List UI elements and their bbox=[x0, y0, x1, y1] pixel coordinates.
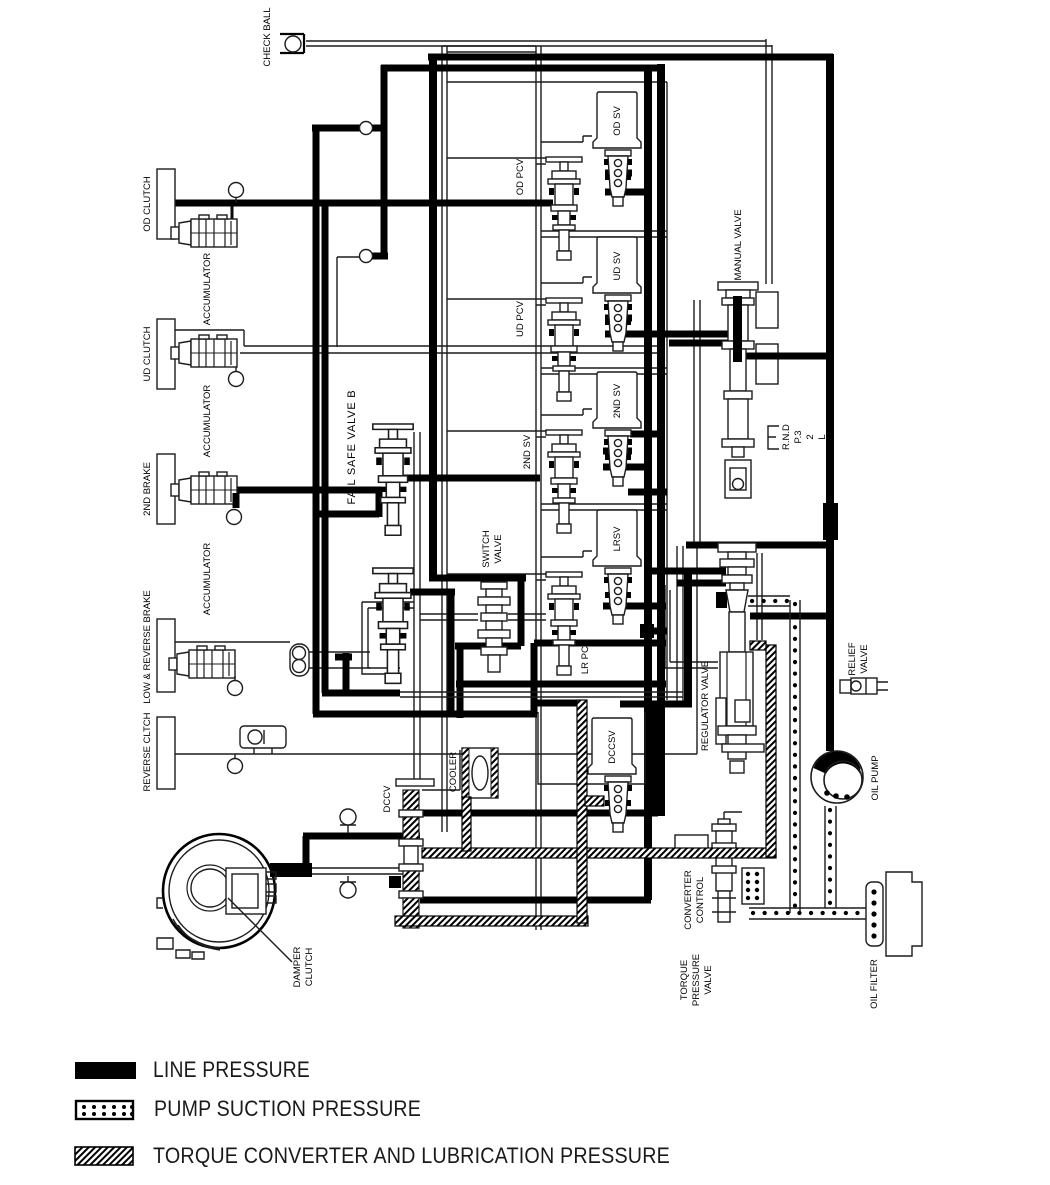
lube check ball bbox=[340, 876, 356, 898]
wire converter to dccv H836 bbox=[303, 833, 420, 840]
wire valve body left wall pair bbox=[442, 46, 447, 832]
svg-text:ACCUMULATOR: ACCUMULATOR bbox=[202, 385, 213, 458]
wire V534 bbox=[531, 643, 538, 714]
wire ud pcv connect stub bbox=[447, 299, 546, 305]
DCCV valve column bbox=[396, 779, 434, 928]
manual valve spool black stem bbox=[733, 296, 742, 362]
2ND SV solenoid body bbox=[604, 430, 632, 486]
wire manual valve feed H343 bbox=[669, 340, 728, 347]
wire switch valve thin links bbox=[420, 614, 546, 620]
svg-text:LINE PRESSURE: LINE PRESSURE bbox=[153, 1057, 310, 1082]
wire check ball line bbox=[306, 41, 772, 46]
wire lr pcv cell step bbox=[541, 551, 592, 557]
UD SV solenoid body bbox=[604, 295, 632, 351]
wire od solenoid stub 2 bbox=[605, 189, 649, 196]
wire cell divider 2 bbox=[541, 368, 667, 374]
converter control valve bbox=[712, 812, 742, 922]
UD accumulator bbox=[171, 335, 237, 367]
svg-text:OD PCV: OD PCV bbox=[515, 158, 526, 195]
wire V379 short link bbox=[376, 487, 383, 517]
wire V661 long middle vertical bbox=[657, 64, 665, 816]
suction dotted horizontal to regulator bbox=[748, 596, 790, 606]
svg-text:REGULATOR VALVE: REGULATOR VALVE bbox=[700, 661, 711, 751]
wire lr pcv connect stub bbox=[447, 574, 546, 580]
wire junction2 thin branch bbox=[337, 257, 362, 347]
regulator valve stack bbox=[716, 543, 764, 773]
svg-text:2ND SV: 2ND SV bbox=[612, 383, 623, 418]
OD clutch plate bbox=[157, 169, 175, 239]
svg-text:VALVE: VALVE bbox=[859, 644, 870, 673]
wire H583 regulator feed lower bbox=[677, 580, 726, 587]
svg-text:2: 2 bbox=[805, 434, 816, 439]
wire H703 link bbox=[536, 700, 578, 707]
wire 2nd pcv connect stub bbox=[447, 431, 546, 437]
wire manual valve feed H334 bbox=[605, 331, 745, 338]
wire V451 bbox=[448, 589, 455, 714]
wire H545 manual valve bottom line bbox=[686, 542, 831, 549]
wire H128 junction branch bbox=[312, 125, 386, 132]
svg-text:L: L bbox=[817, 434, 828, 439]
wire 2nd brake line H490 bbox=[236, 487, 382, 494]
wire H592 fail-safe link bbox=[410, 589, 455, 596]
wire V385 from H68 to junction ball 2 bbox=[381, 65, 388, 258]
svg-text:R.N.D: R.N.D bbox=[781, 424, 792, 450]
wire solenoid cell top border bbox=[447, 81, 667, 83]
UD check ball bbox=[229, 367, 244, 387]
converter control suction box bbox=[742, 868, 764, 904]
oil pump bbox=[811, 751, 863, 803]
wire H256 stub at junction ball 2 bbox=[360, 253, 388, 260]
low reverse capsule bbox=[290, 644, 309, 676]
suction dotted horizontal to oil filter bbox=[749, 908, 866, 919]
lube hatched elbow to dccsv bbox=[585, 796, 604, 806]
wire manual valve pocket bottom bbox=[756, 344, 778, 384]
2nd brake check ball with thick stem bbox=[227, 493, 242, 525]
wire manual valve pocket top bbox=[756, 292, 778, 328]
wire low reverse brake line bbox=[175, 641, 290, 643]
UD SV solenoid box bbox=[593, 237, 641, 293]
wire 2nd solenoid stub bbox=[603, 448, 632, 455]
lube hatched band vertical mid bbox=[577, 700, 587, 923]
svg-text:VALVE: VALVE bbox=[493, 534, 504, 563]
wire V648 middle vertical bbox=[644, 68, 652, 900]
svg-text:DAMPER: DAMPER bbox=[292, 947, 303, 988]
wire reverse clutch line bbox=[175, 548, 697, 754]
wire blob left of regulator bbox=[716, 592, 727, 608]
svg-text:TORQUE CONVERTER AND LUBRICATI: TORQUE CONVERTER AND LUBRICATION PRESSUR… bbox=[153, 1143, 670, 1168]
svg-text:OD CLUTCH: OD CLUTCH bbox=[142, 176, 153, 232]
wire top frame horizontals bbox=[442, 46, 536, 52]
svg-text:UD CLUTCH: UD CLUTCH bbox=[142, 326, 153, 381]
wire 2nd solenoid stub 2 bbox=[603, 464, 649, 471]
lube hatched band vertical right bbox=[766, 645, 776, 857]
wire solenoid cell right wall bbox=[666, 82, 668, 700]
manual valve detent bbox=[725, 460, 751, 498]
wire dccv feed thin pair bbox=[414, 432, 420, 779]
check ball symbol bbox=[280, 34, 304, 53]
wire od pcv cell step bbox=[541, 136, 592, 142]
LRSV solenoid body bbox=[604, 568, 632, 624]
OD SV solenoid body bbox=[604, 150, 632, 206]
svg-text:PRESSURE: PRESSURE bbox=[691, 954, 702, 1006]
damper clutch pointer bbox=[228, 898, 292, 962]
torque converter housing bbox=[157, 834, 276, 959]
wire lubrication return line bbox=[284, 868, 420, 874]
junction ball 2 bbox=[360, 250, 373, 263]
svg-text:DCCV: DCCV bbox=[382, 785, 393, 813]
wire od solenoid stub bbox=[605, 170, 632, 177]
wire H693 bbox=[322, 690, 400, 697]
2ND PCV valve bbox=[546, 430, 582, 533]
wire torque converter elbow bbox=[303, 836, 310, 875]
svg-text:RELIEF: RELIEF bbox=[847, 642, 858, 675]
svg-text:MANUAL VALVE: MANUAL VALVE bbox=[733, 209, 744, 280]
wire V833 widened section bbox=[823, 503, 838, 540]
DCCSV solenoid box bbox=[588, 718, 636, 774]
wire blob at H631 left end bbox=[640, 624, 654, 638]
wire V460 bbox=[457, 646, 464, 718]
wire H684 switch valve lower branch bbox=[456, 681, 666, 688]
reverse check ball bbox=[228, 754, 243, 774]
svg-text:PUMP SUCTION PRESSURE: PUMP SUCTION PRESSURE bbox=[154, 1096, 421, 1121]
wire regulator right thin pair bbox=[757, 553, 762, 640]
OD PCV valve bbox=[546, 157, 582, 260]
wire od pcv connect stub bbox=[447, 158, 546, 164]
OD accumulator bbox=[171, 206, 237, 247]
OD check ball with stem bbox=[229, 183, 244, 204]
2ND SV solenoid box bbox=[593, 372, 641, 428]
legend pump suction swatch bbox=[76, 1101, 134, 1119]
wire V521 bbox=[518, 578, 525, 646]
UD PCV valve bbox=[546, 298, 582, 401]
svg-text:LRSV: LRSV bbox=[612, 526, 623, 551]
OD SV solenoid box bbox=[593, 92, 641, 148]
svg-text:FAIL SAFE VALVE B: FAIL SAFE VALVE B bbox=[346, 390, 358, 505]
svg-text:P.3: P.3 bbox=[793, 430, 804, 443]
wire right main vertical V833 bbox=[826, 54, 834, 751]
low reverse brake plate bbox=[157, 619, 175, 692]
2nd brake plate bbox=[157, 454, 175, 524]
fail safe valve B lower bbox=[373, 568, 413, 683]
wire H631 branch bbox=[640, 628, 667, 635]
wire H571 regulator feed bbox=[648, 568, 726, 575]
svg-text:CONTROL: CONTROL bbox=[695, 877, 706, 923]
oil filter bbox=[866, 872, 922, 956]
wire H714 bbox=[313, 711, 537, 718]
legend line pressure swatch bbox=[75, 1062, 136, 1079]
svg-text:CONVERTER: CONVERTER bbox=[683, 870, 694, 930]
reverse check valve capsule bbox=[240, 726, 286, 754]
wire V346 elbow bbox=[335, 653, 352, 690]
wire 2nd pcv cell step bbox=[541, 409, 592, 415]
svg-text:ACCUMULATOR: ACCUMULATOR bbox=[202, 253, 213, 326]
suction dotted vertical from oil pump bbox=[825, 806, 836, 908]
wire V325 down from OD line bbox=[322, 200, 329, 693]
svg-text:CHECK BALL: CHECK BALL bbox=[262, 7, 273, 66]
wire ud solenoid stub bbox=[605, 315, 632, 322]
wire dccsv cell frame bbox=[538, 712, 645, 784]
legend torque converter swatch bbox=[75, 1147, 133, 1165]
reverse clutch plate bbox=[157, 717, 175, 789]
junction ball 1 bbox=[360, 122, 373, 135]
wire valve body mid wall pair bbox=[536, 46, 541, 930]
svg-text:LOW & REVERSE BRAKE: LOW & REVERSE BRAKE bbox=[142, 590, 153, 704]
wire ud clutch thin line bbox=[175, 330, 660, 346]
wire lube thin pair to regulator bbox=[400, 692, 683, 697]
svg-text:SWITCH: SWITCH bbox=[481, 530, 492, 568]
DCCSV solenoid body bbox=[604, 776, 632, 832]
LRSV solenoid box bbox=[593, 510, 641, 566]
wire regulator to V833 H616 bbox=[750, 613, 828, 620]
wire manual valve to V833 H356 bbox=[744, 353, 830, 360]
svg-text:CLUTCH: CLUTCH bbox=[304, 948, 315, 987]
wire H704 elbow bbox=[620, 701, 692, 708]
wire H646 bbox=[455, 643, 521, 650]
svg-text:ACCUMULATOR: ACCUMULATOR bbox=[202, 543, 213, 616]
wire V688 vertical bbox=[684, 571, 692, 707]
wire regulator left thin corners bbox=[665, 585, 718, 668]
wire dccv line H813 bbox=[420, 810, 658, 817]
cooler bbox=[462, 748, 498, 798]
svg-text:VALVE: VALVE bbox=[703, 965, 714, 994]
wire dccv cooler link bbox=[422, 750, 460, 790]
svg-text:REVERSE CLTCH: REVERSE CLTCH bbox=[142, 712, 153, 791]
svg-text:OD SV: OD SV bbox=[612, 106, 623, 136]
svg-text:LR PCV: LR PCV bbox=[580, 639, 591, 674]
svg-text:DCCSV: DCCSV bbox=[607, 730, 618, 764]
fail safe valve B upper bbox=[373, 424, 413, 535]
lube hatched stub from regulator bbox=[750, 641, 766, 650]
wire cell divider 1 bbox=[541, 231, 667, 237]
wire manual valve lower frame bbox=[694, 300, 737, 543]
wire manual valve frame right verticals bbox=[766, 39, 772, 284]
wire lrsv stub upper bbox=[628, 489, 667, 496]
wire line-pressure top rail H59 bbox=[428, 54, 833, 61]
svg-text:COOLER: COOLER bbox=[448, 752, 459, 792]
converter feed check ball bbox=[340, 809, 356, 833]
low reverse check ball bbox=[228, 676, 243, 696]
wire second top rail H68 bbox=[381, 65, 659, 72]
suction dotted vertical from regulator bbox=[790, 600, 800, 913]
wire fail-safe thin loops bbox=[362, 602, 414, 674]
gear selector bracket bbox=[768, 426, 779, 449]
wire switch valve cap H578 bbox=[429, 575, 526, 582]
svg-text:OIL PUMP: OIL PUMP bbox=[870, 755, 881, 800]
wire V433 from top rail down to switch valve bbox=[429, 54, 437, 578]
2nd brake accumulator bbox=[171, 472, 237, 504]
UD clutch plate bbox=[157, 319, 175, 389]
switch valve stack bbox=[478, 582, 510, 672]
wire H643 bbox=[534, 640, 666, 647]
wire ud accumulator thin line bbox=[240, 352, 660, 354]
wire torque converter feed bbox=[270, 863, 312, 877]
LR PCV valve bbox=[546, 572, 582, 675]
wire fail-safe to 2nd pcv H478 bbox=[384, 475, 540, 482]
svg-text:UD PCV: UD PCV bbox=[515, 300, 526, 337]
svg-text:2ND BRAKE: 2ND BRAKE bbox=[142, 462, 153, 516]
wire OD clutch line H203 bbox=[175, 200, 553, 207]
svg-text:TORQUE: TORQUE bbox=[679, 960, 690, 1000]
wire 2nd sv cell stub bbox=[630, 431, 657, 438]
wire H900 bottom line bbox=[420, 897, 651, 904]
lube hatched cooler drop bbox=[462, 797, 471, 851]
low reverse accumulator bbox=[169, 646, 235, 678]
wire V316 down from H128 bbox=[313, 125, 320, 714]
wire converter control feed pair bbox=[677, 546, 683, 707]
wire lr capsule to fail safe bbox=[308, 652, 370, 668]
wire merged vertical band bbox=[645, 706, 665, 814]
lube hatched band bottom U bbox=[395, 916, 588, 926]
svg-text:2ND SV: 2ND SV bbox=[522, 434, 533, 469]
svg-text:UD SV: UD SV bbox=[612, 251, 623, 281]
lube hatched band horizontal main bbox=[422, 848, 776, 858]
svg-text:OIL FILTER: OIL FILTER bbox=[869, 959, 880, 1009]
wire LRSV branch H606 bbox=[603, 603, 666, 610]
relief valve bbox=[840, 678, 888, 694]
manual valve body bbox=[718, 282, 758, 457]
wire cell divider 3 bbox=[541, 504, 667, 510]
wire H514 link bbox=[313, 511, 379, 518]
wire ud pcv cell step bbox=[541, 277, 592, 283]
